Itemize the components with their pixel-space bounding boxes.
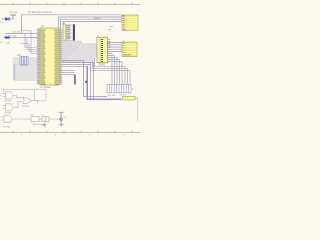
- diode D5: [0, 17, 13, 24]
- ground bottom stack: [59, 124, 64, 126]
- purple bus wire: [87, 66, 122, 99]
- resistor pack RP1: [107, 84, 134, 97]
- J5 bottom pin stubs: [100, 63, 104, 66]
- navy bus stub: [74, 75, 75, 85]
- small blue net labels: [13, 65, 15, 81]
- staircase wires U2 right to J5: [63, 41, 130, 85]
- U2 pin number marks: [37, 28, 61, 83]
- svg-text:74LS32: 74LS32: [4, 101, 12, 103]
- header J1 top right: [122, 15, 138, 30]
- sheet zone marks: [21, 135, 125, 137]
- svg-text:conn: conn: [109, 26, 113, 28]
- resistor R10 box: [31, 116, 42, 121]
- faint wire right edge: [137, 98, 139, 121]
- J5 right pin stubs: [108, 40, 111, 62]
- U2 right pin stubs: [59, 30, 62, 84]
- sheet background: [0, 0, 140, 140]
- svg-text:U2 8255A: U2 8255A: [41, 86, 51, 89]
- rounded box below U2: [35, 89, 47, 101]
- U2 left pin stubs: [37, 30, 40, 84]
- header J2: [122, 42, 137, 57]
- svg-text:RP1 10K: RP1 10K: [108, 95, 117, 97]
- svg-text:LCD_EN: LCD_EN: [12, 32, 20, 34]
- resistor R9: [123, 96, 138, 100]
- wires J5 to J2: [107, 43, 122, 52]
- header J4 body: [63, 24, 75, 40]
- top wires to header J1: [22, 15, 123, 34]
- wire bundle left of U2: [20, 31, 37, 54]
- resistor pack RP2 (small striped box): [20, 57, 28, 66]
- wires into U2 lower-left pins: [14, 66, 38, 80]
- svg-text:CABLE1: CABLE1: [94, 17, 103, 20]
- diode D6: [0, 35, 37, 44]
- wires U2 bottom-right corners: [62, 61, 107, 100]
- wire into gates: [4, 90, 35, 94]
- blue junction mark on bus: [85, 81, 87, 83]
- gate G3 OR: [23, 97, 37, 104]
- ground under C7: [42, 125, 47, 127]
- U2 inner pin name rows: [41, 30, 59, 85]
- svg-text:74LS32: 74LS32: [4, 113, 12, 115]
- capacitor C8 plates: [59, 118, 63, 124]
- sheet bottom border line: [0, 131, 140, 133]
- wires U2 to J4: [61, 30, 64, 38]
- gate G1: [3, 92, 23, 99]
- wire LCD_EN: [6, 32, 37, 34]
- IC U2 8255 body: [40, 28, 59, 85]
- gate G4: [1, 116, 32, 123]
- svg-text:VCC_IN: VCC_IN: [10, 12, 18, 14]
- power bar bottom: [59, 112, 64, 118]
- sheet top border line: [0, 3, 140, 5]
- svg-text:D7: D7: [13, 79, 15, 81]
- header J5 tall: [97, 37, 108, 63]
- capacitor C7 box: [42, 116, 61, 121]
- svg-text:74LS32: 74LS32: [3, 126, 11, 128]
- svg-text:74LS32: 74LS32: [22, 106, 30, 108]
- svg-text:PC End Dgn Connector: PC End Dgn Connector: [28, 11, 52, 14]
- staircase wires J5 to RP1: [108, 54, 123, 85]
- gate G2: [3, 102, 23, 111]
- power symbol VCC top-left: [10, 12, 18, 19]
- lower loop wire: [34, 122, 45, 125]
- wires through RP2: [13, 58, 38, 64]
